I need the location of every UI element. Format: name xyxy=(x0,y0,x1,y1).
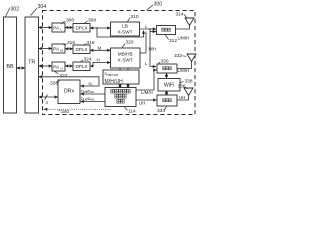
svg-text:DPLX: DPLX xyxy=(75,26,87,31)
svg-text:326: 326 xyxy=(50,80,58,86)
svg-text:DRx: DRx xyxy=(64,89,74,95)
svg-text:L: L xyxy=(145,24,148,29)
svg-text:DPLX: DPLX xyxy=(75,47,87,52)
svg-text:340: 340 xyxy=(61,109,69,115)
svg-text:MB/UHB: MB/UHB xyxy=(107,73,118,77)
svg-text:HB: HB xyxy=(90,98,94,102)
svg-text:L/M/H: L/M/H xyxy=(141,90,153,95)
svg-text:MB/HB: MB/HB xyxy=(118,52,133,57)
svg-text:308: 308 xyxy=(88,18,96,24)
svg-text:X-SWT: X-SWT xyxy=(118,58,133,63)
svg-text:300: 300 xyxy=(154,2,163,8)
svg-text:314: 314 xyxy=(176,11,184,17)
svg-text:312: 312 xyxy=(169,38,177,44)
svg-text:320: 320 xyxy=(126,40,134,46)
svg-text:334: 334 xyxy=(157,108,165,114)
svg-text:LB: LB xyxy=(122,24,128,29)
svg-text:322: 322 xyxy=(60,73,68,79)
svg-text:H: H xyxy=(61,66,63,70)
svg-text:UH: UH xyxy=(179,95,185,100)
svg-text:M/H: M/H xyxy=(149,47,157,52)
svg-text:TR: TR xyxy=(28,60,35,66)
svg-text:304: 304 xyxy=(38,4,47,10)
svg-text:PA: PA xyxy=(53,26,60,32)
svg-text:PA: PA xyxy=(53,47,60,53)
svg-text:HB: HB xyxy=(90,90,94,94)
svg-text:M/H/UH: M/H/UH xyxy=(105,79,124,85)
svg-text:BB: BB xyxy=(6,64,14,70)
svg-text:306: 306 xyxy=(66,18,74,24)
svg-text:324: 324 xyxy=(84,57,92,63)
svg-text:L/M/H: L/M/H xyxy=(178,36,190,41)
svg-text:316: 316 xyxy=(67,40,75,46)
svg-text:M: M xyxy=(98,46,102,51)
svg-text:L/M/H: L/M/H xyxy=(178,68,190,73)
svg-text:4: 4 xyxy=(46,100,49,105)
svg-text:WiFi: WiFi xyxy=(164,83,174,89)
svg-text:330: 330 xyxy=(161,58,169,64)
svg-text:DPLX: DPLX xyxy=(75,64,87,69)
svg-text:L: L xyxy=(145,61,148,66)
svg-text:114: 114 xyxy=(128,108,136,114)
svg-text:338: 338 xyxy=(185,78,193,84)
svg-text:H: H xyxy=(97,58,100,63)
svg-text:UH: UH xyxy=(139,101,145,106)
svg-text:302: 302 xyxy=(11,7,20,13)
svg-text:PA: PA xyxy=(53,65,60,71)
svg-text:310: 310 xyxy=(131,14,139,20)
svg-text:X-SWT: X-SWT xyxy=(117,30,132,35)
svg-text:318: 318 xyxy=(87,40,95,46)
svg-text:332: 332 xyxy=(174,53,182,59)
